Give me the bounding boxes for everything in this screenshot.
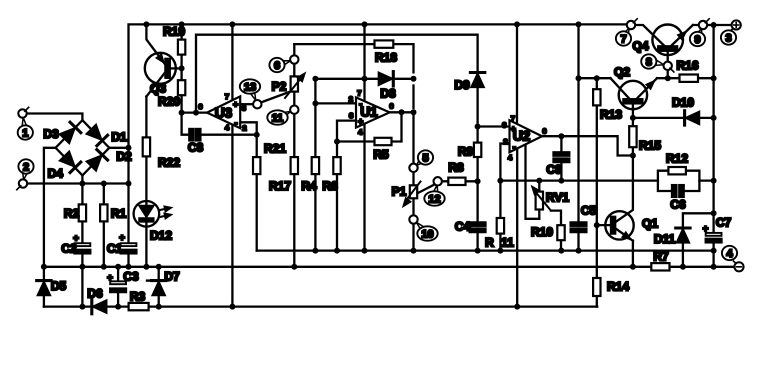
node 6 label: [269, 58, 284, 72]
svg-text:-: -: [513, 142, 516, 152]
wire R15 bottom: [632, 147, 634, 155]
diode D3: [59, 122, 81, 144]
junction dots bus1: [41, 264, 717, 270]
wire U1 pin3 elbow: [337, 121, 356, 142]
svg-text:R21: R21: [264, 141, 286, 155]
wire D8 corner down: [412, 86, 414, 109]
svg-text:D7: D7: [164, 269, 180, 283]
svg-text:R18: R18: [375, 50, 397, 64]
svg-text:9: 9: [694, 34, 700, 46]
svg-text:11: 11: [501, 236, 514, 250]
diode D8: [379, 72, 394, 86]
svg-text:+: +: [358, 116, 363, 126]
junction dot D11 corner: [711, 210, 717, 216]
resistor R4: [312, 157, 319, 174]
wire T5 P1 T10 chain: [412, 112, 414, 250]
wire R8 row: [442, 180, 478, 182]
resistor R17: [291, 157, 298, 174]
node 2 label: [18, 159, 33, 173]
diode D11: [676, 228, 690, 243]
junction dot U1 pin2 node: [312, 100, 318, 106]
junction dots bus2: [79, 304, 520, 310]
wire U1 pin2 row: [315, 102, 356, 104]
svg-text:4: 4: [508, 153, 513, 162]
wire U2 pin7 up: [516, 24, 518, 124]
wire bridge right node to rail: [109, 147, 128, 149]
wire Q1 emitter: [615, 228, 633, 267]
transistor Q1: [605, 211, 633, 239]
wire U2 comp elbow: [526, 146, 540, 219]
svg-text:R7: R7: [653, 250, 669, 264]
svg-text:C7: C7: [716, 215, 732, 229]
wire R12 C6 loop: [658, 171, 700, 191]
wire terminal12 to P1 wiper: [417, 185, 434, 194]
wire C9 leads: [560, 136, 562, 180]
svg-text:6: 6: [389, 102, 393, 111]
svg-text:D8: D8: [380, 86, 396, 100]
svg-text:R14: R14: [607, 279, 629, 293]
junction dots D8 row: [312, 76, 416, 82]
node 3 label: [721, 30, 736, 44]
svg-text:2: 2: [503, 137, 507, 146]
junction dot R21 top: [254, 132, 260, 138]
svg-text:+: +: [107, 273, 113, 284]
svg-text:U3: U3: [215, 106, 233, 121]
resistor R16: [680, 75, 699, 82]
svg-text:D3: D3: [43, 127, 59, 141]
junction dots R16 row: [665, 75, 717, 81]
wire RV1 leads: [538, 181, 540, 219]
svg-text:D12: D12: [150, 228, 172, 242]
wire R5 row: [337, 112, 402, 141]
svg-text:RV1: RV1: [546, 191, 569, 205]
wire Q3 emitter chain: [145, 97, 147, 267]
svg-text:+: +: [233, 99, 238, 109]
terminal circle 13: [250, 90, 262, 108]
wire U1 pin7 up: [363, 24, 365, 101]
svg-text:D9: D9: [454, 78, 470, 92]
node 8 label: [641, 54, 656, 68]
junction dots U1 output: [399, 109, 417, 115]
wire R6 chain: [336, 142, 338, 251]
junction dots R13 row: [576, 75, 600, 81]
wire Q2 collector diag: [611, 78, 631, 99]
svg-text:R3: R3: [130, 289, 146, 303]
wire RV1 wiper to R10: [551, 211, 561, 251]
capacitor C6: [672, 185, 684, 197]
wire Q4 emitter: [671, 25, 699, 46]
resistor R19: [178, 40, 185, 55]
terminal circle 12: [433, 177, 442, 194]
capacitor C5: [571, 222, 587, 232]
svg-text:4: 4: [726, 248, 733, 260]
diode D4: [59, 151, 81, 173]
capacitor C3: [110, 281, 126, 292]
wire R4 chain: [314, 103, 316, 250]
wire Q2 emitter diag: [636, 78, 668, 99]
wire U2 output to R15 node: [542, 136, 629, 155]
resistor R5: [375, 138, 392, 145]
wire bridge arm D1: [82, 120, 109, 148]
wire U2 pin4 down: [516, 148, 518, 306]
resistor R8: [448, 178, 465, 185]
svg-text:6: 6: [542, 126, 546, 135]
svg-text:3: 3: [502, 120, 506, 129]
svg-text:1: 1: [22, 127, 28, 139]
node 9 label: [690, 32, 705, 46]
svg-text:R17: R17: [269, 179, 291, 193]
svg-text:8: 8: [646, 56, 652, 68]
wire pin2 corner: [314, 79, 316, 104]
resistor R3: [129, 303, 149, 310]
diode D1: [86, 124, 108, 146]
wire R11 chain: [499, 181, 501, 251]
svg-text:10: 10: [421, 228, 433, 240]
node 13 label: [240, 79, 260, 93]
diode D9: [470, 73, 484, 88]
LED D12: [134, 201, 171, 227]
wire Q4 base to T8: [667, 51, 669, 78]
op-amp U1: [356, 97, 390, 127]
wire row 180 regulators: [500, 179, 713, 181]
svg-text:7: 7: [620, 33, 626, 45]
op-amp U3: [207, 96, 240, 128]
potentiometer RV1: [533, 187, 551, 210]
potentiometer P2: [285, 74, 304, 98]
svg-text:R1: R1: [111, 207, 127, 221]
svg-text:R2: R2: [64, 207, 80, 221]
wire bridge left node down: [44, 148, 56, 267]
terminal circle 6: [281, 55, 298, 66]
resistor R20: [178, 80, 185, 95]
wire C8 left stub: [182, 113, 190, 135]
svg-text:4: 4: [358, 127, 363, 136]
svg-text:+: +: [119, 233, 125, 244]
wire Q2 base down: [632, 103, 634, 126]
svg-text:Q1: Q1: [642, 216, 658, 230]
wire D10 row: [633, 117, 714, 119]
op-amp U3 pin labels: [198, 92, 246, 132]
svg-text:6: 6: [198, 102, 202, 111]
resistor R21: [253, 157, 260, 174]
wire C8 right to R21: [200, 134, 256, 136]
terminal circle 11: [281, 106, 298, 118]
wire bus2 ground rail: [44, 305, 597, 307]
op-amp U1 pin labels: [349, 88, 394, 136]
svg-text:R19: R19: [163, 24, 185, 38]
svg-text:+: +: [511, 124, 516, 134]
svg-text:D10: D10: [672, 95, 694, 109]
wire D11 bottom: [682, 243, 684, 267]
junction dot U2 output: [558, 133, 564, 139]
wire bridge arm D2: [82, 148, 109, 176]
node 10 label: [417, 226, 437, 240]
wire U1 pin4 down: [363, 124, 365, 251]
wire mid collector row: [257, 249, 714, 251]
svg-text:7: 7: [511, 114, 515, 123]
svg-text:R9: R9: [458, 144, 474, 158]
wire U3 pin4 down: [231, 125, 233, 307]
node 5 label: [418, 150, 433, 164]
wire Q1 collector: [615, 156, 633, 223]
svg-text:4: 4: [225, 123, 230, 132]
terminal circle 9: [697, 19, 709, 35]
svg-text:3: 3: [725, 32, 731, 44]
diode D7 zener: [147, 281, 166, 296]
capacitor C4: [470, 222, 486, 232]
terminal circle 2: [17, 171, 28, 190]
wire D11 top elbow: [683, 213, 714, 227]
svg-text:C5: C5: [581, 203, 597, 217]
wire top supply bus: [129, 24, 627, 147]
node 7 label: [616, 31, 631, 45]
node 12 label: [424, 191, 444, 205]
wire T9 to plus terminal: [707, 24, 731, 26]
wire C3 top: [117, 267, 119, 282]
wire terminal 1 to bridge top: [27, 114, 83, 121]
wire C3 bottom: [117, 292, 119, 306]
diode D5: [37, 281, 51, 296]
resistor R12: [668, 167, 686, 174]
svg-text:R12: R12: [666, 151, 688, 165]
svg-text:R15: R15: [639, 138, 661, 152]
svg-text:11: 11: [272, 112, 284, 124]
junction dot U2 pin3 node: [475, 124, 481, 130]
junction dots input row: [79, 145, 131, 187]
wire R1 top: [103, 184, 105, 205]
resistor R15: [629, 126, 636, 147]
svg-text:R: R: [485, 236, 494, 250]
wire R13 feed row: [579, 77, 611, 79]
wire D9 to R9 chain: [476, 86, 478, 251]
capacitor C9: [554, 152, 570, 162]
resistor R14: [593, 278, 600, 296]
terminal circle 1: [18, 107, 28, 127]
op-amp U2: [510, 120, 543, 152]
svg-text:R20: R20: [158, 95, 180, 109]
svg-text:R6: R6: [322, 179, 338, 193]
svg-text:2: 2: [242, 123, 246, 132]
svg-text:R10: R10: [531, 225, 553, 239]
svg-text:R22: R22: [158, 155, 180, 169]
wire D7 leads: [158, 267, 160, 307]
capacitor C1: [121, 243, 137, 253]
wire B P2 to R18 to D8: [294, 44, 413, 72]
wire R2 to C2: [81, 221, 83, 243]
svg-text:Q4: Q4: [632, 39, 648, 53]
junction dot R6 R5 node: [334, 139, 340, 145]
resistor R18: [375, 40, 394, 47]
diode D10: [685, 111, 700, 125]
wire terminal 2 row: [27, 182, 129, 184]
wire U3 pin2 elbow: [240, 122, 257, 134]
svg-text:R16: R16: [676, 58, 698, 72]
transistor Q2: [619, 81, 654, 109]
node 1 label: [18, 125, 33, 139]
resistor R9: [474, 143, 481, 157]
terminal circle 10: [409, 215, 425, 231]
svg-text:C6: C6: [670, 198, 686, 212]
svg-text:2: 2: [23, 161, 29, 173]
svg-text:R8: R8: [448, 160, 464, 174]
svg-text:D4: D4: [48, 167, 64, 181]
wire bus1 minus rail: [44, 266, 735, 268]
wire U3 pin3 to terminal 13: [240, 103, 253, 105]
svg-text:D6: D6: [87, 286, 103, 300]
svg-text:+: +: [73, 233, 79, 244]
terminal minus output: [734, 261, 744, 271]
wire U2 pin2 elbow: [500, 144, 509, 181]
svg-text:D2: D2: [116, 149, 132, 163]
resistor R22: [143, 137, 150, 156]
wire Q4 collector: [635, 25, 664, 46]
junction dot R8 R9 node: [475, 178, 481, 184]
wire P2 chain: [293, 44, 295, 267]
svg-text:D5: D5: [51, 279, 67, 293]
capacitor C8: [189, 129, 200, 141]
svg-text:5: 5: [422, 152, 428, 164]
junction dot Q1 base node: [594, 222, 600, 228]
resistor R2: [79, 204, 86, 221]
junction dots top bus: [143, 21, 716, 28]
node 11 label: [267, 110, 287, 124]
wire U2 pin3 row: [478, 125, 510, 127]
wire bridge arm D4: [56, 148, 83, 176]
svg-text:D1: D1: [111, 130, 127, 144]
wire Q3 collector: [146, 24, 165, 65]
svg-text:7: 7: [225, 92, 229, 101]
svg-text:Q2: Q2: [614, 65, 630, 79]
junction dots mid row: [312, 248, 716, 254]
capacitor C7: [706, 233, 722, 243]
svg-text:C4: C4: [455, 219, 471, 233]
resistor R6: [333, 157, 340, 174]
resistor R7: [651, 263, 669, 270]
wire Q3 emitter diag: [146, 72, 165, 97]
terminal circle 5: [409, 159, 423, 172]
wire right rail: [712, 25, 714, 267]
wire R16 row: [668, 77, 714, 79]
svg-text:2: 2: [349, 94, 353, 103]
resistor R10: [557, 225, 564, 240]
svg-text:6: 6: [274, 60, 280, 72]
svg-text:-: -: [359, 99, 362, 109]
wire Q3 base: [170, 67, 182, 69]
wire bridge bottom to R2: [81, 175, 83, 204]
wire Q1 base: [597, 224, 611, 226]
wire A U3out to D9: [196, 35, 478, 113]
svg-text:C9: C9: [546, 162, 562, 176]
node 4 label: [722, 246, 737, 260]
terminal plus output: [731, 20, 741, 30]
diode D2: [86, 150, 108, 172]
resistor R13: [593, 89, 600, 105]
svg-text:3: 3: [349, 111, 353, 120]
potentiometer P1: [404, 182, 421, 206]
wire rail down to C1: [127, 148, 129, 243]
wire C1 bottom: [127, 253, 129, 267]
wire U1 output row: [390, 111, 414, 113]
svg-text:R5: R5: [373, 147, 389, 161]
wire bridge arm D3: [56, 120, 83, 148]
op-amp U2 pin labels: [502, 114, 546, 162]
junction dots Q3 R20 node: [179, 65, 199, 115]
svg-text:C3: C3: [123, 269, 139, 283]
svg-text:P2: P2: [272, 79, 287, 93]
wire R1 bottom: [103, 221, 105, 266]
svg-text:D11: D11: [654, 232, 676, 246]
transistor Q3: [145, 53, 176, 84]
svg-text:7: 7: [357, 88, 361, 97]
wire terminal13 to P2 wiper: [261, 91, 291, 102]
resistor R11: [497, 218, 504, 234]
terminal circle 8: [655, 60, 674, 72]
wire D8 row: [315, 78, 413, 80]
svg-text:P1: P1: [392, 184, 407, 198]
svg-text:12: 12: [428, 193, 440, 205]
wire U3 output row: [182, 111, 207, 113]
junction dots D10 row: [630, 115, 717, 121]
wire U3 pin7 up: [231, 24, 233, 100]
svg-text:+: +: [703, 224, 709, 235]
svg-text:C8: C8: [188, 140, 204, 154]
svg-text:R4: R4: [301, 179, 317, 193]
wire C2 to ground buses: [81, 253, 83, 306]
wire R19 R20 chain: [180, 24, 182, 112]
svg-text:3: 3: [242, 104, 246, 113]
wire C5 column: [577, 24, 579, 250]
transistor Q4: [652, 25, 685, 56]
terminal circle 7: [624, 19, 637, 35]
junction dot R15 bottom node: [630, 153, 636, 159]
resistor R1: [100, 204, 107, 221]
junction dots row 180: [497, 178, 716, 184]
wire D5 leads: [43, 267, 45, 307]
wire R13 R14 column: [596, 78, 598, 306]
svg-text:13: 13: [244, 81, 256, 93]
diode D6: [92, 299, 107, 313]
svg-text:R13: R13: [600, 107, 622, 121]
wire R21 chain: [256, 135, 258, 251]
svg-text:Q3: Q3: [150, 82, 166, 96]
svg-text:-: -: [235, 118, 238, 128]
capacitor C2: [75, 243, 91, 253]
